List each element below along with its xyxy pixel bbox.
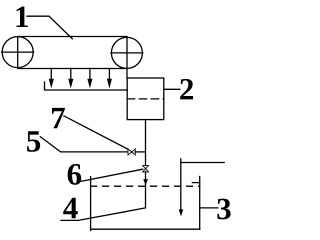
right pulley cross horizontal (111, 52, 143, 54)
pipe from valve 7 to vertical pipe (135, 151, 145, 153)
spray pipe under arrows (45, 82, 128, 90)
label 5 (27, 131, 40, 152)
leader line from 5 (40, 137, 128, 152)
label 6 (68, 164, 82, 185)
spray arrow 3 (88, 69, 91, 86)
label 1 (16, 7, 27, 27)
vertical pipe from box 2 bottom (145, 120, 147, 166)
box 2 dashed level line (127, 98, 164, 100)
box 2 (127, 78, 164, 120)
discharge pipe arrowhead (144, 180, 147, 184)
inlet pipe arrowhead (180, 210, 183, 214)
leader line from 1 (27, 16, 72, 39)
left pulley cross vertical (17, 37, 19, 68)
leader line to 2 (164, 88, 180, 90)
conveyor belt bottom line (18, 68, 127, 70)
discharge pipe below valve (145, 172, 147, 208)
conveyor left pulley (2, 37, 33, 68)
valve 7 center dot (131, 151, 133, 153)
tank left edge (90, 177, 92, 231)
label 2 (180, 79, 193, 100)
vertical valve bowtie (143, 166, 149, 172)
right pulley vertical line down to box 2 (126, 37, 128, 78)
tank bottom edge (91, 228, 200, 230)
leader line to 3 (200, 207, 218, 209)
inlet pipe horizontal (181, 162, 224, 164)
spray arrow 1 (50, 69, 53, 86)
tank liquid level dashed line (91, 185, 200, 187)
label 3 (217, 199, 230, 220)
tank right edge (199, 177, 201, 230)
conveyor right pulley (111, 37, 142, 68)
leader line from 6 to vertical valve (78, 169, 142, 182)
leader line from 7 to valve (64, 116, 128, 149)
inlet pipe vertical (180, 159, 182, 210)
conveyor belt top line (18, 36, 127, 38)
label 4 (63, 198, 78, 218)
leader line from 4 to discharge pipe (61, 208, 146, 221)
spray arrow 2 (69, 69, 72, 86)
tank right inner stub (192, 182, 199, 184)
left pulley cross horizontal (2, 51, 34, 53)
spray arrow 4 (108, 69, 111, 86)
label 7 (52, 108, 65, 128)
valve 7 horizontal bowtie (128, 149, 135, 155)
